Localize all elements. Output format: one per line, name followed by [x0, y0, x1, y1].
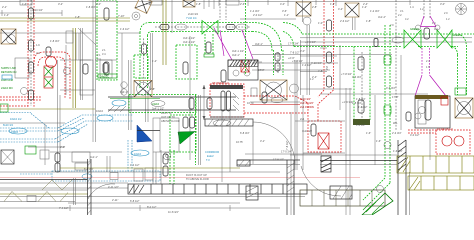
svg-text:24x10: 24x10: [152, 102, 160, 106]
svg-text:1 4: 1 4: [410, 5, 414, 9]
svg-text:1'-6": 1'-6": [22, 2, 27, 6]
svg-text:2'-8": 2'-8": [312, 5, 317, 9]
svg-text:7'-4 1/2": 7'-4 1/2": [59, 206, 69, 210]
svg-text:1'-6 1/2": 1'-6 1/2": [358, 105, 368, 109]
svg-text:2x4: 2x4: [325, 66, 329, 71]
svg-text:1'-8": 1'-8": [196, 2, 201, 6]
svg-text:3'-2": 3'-2": [58, 2, 63, 6]
svg-text:T.V.: T.V.: [206, 158, 211, 162]
svg-text:1'-6 1/2": 1'-6 1/2": [120, 27, 130, 31]
svg-text:3'-0 1/2": 3'-0 1/2": [356, 123, 366, 127]
svg-text:3'-0": 3'-0": [440, 2, 445, 6]
svg-text:1'-2": 1'-2": [152, 59, 157, 63]
svg-text:ELEV.: ELEV.: [207, 154, 214, 158]
svg-text:1'-4 1/2": 1'-4 1/2": [130, 163, 140, 167]
svg-text:2'-1": 2'-1": [2, 5, 7, 9]
svg-text:1'-4": 1'-4": [4, 13, 9, 17]
svg-text:3 4: 3 4: [97, 57, 101, 61]
svg-text:1'-8 3/4": 1'-8 3/4": [352, 101, 362, 105]
svg-text:2'-8": 2'-8": [150, 87, 155, 91]
svg-text:2x4: 2x4: [300, 117, 305, 121]
svg-text:7'x10 1/4: 7'x10 1/4: [186, 16, 197, 20]
svg-text:2'-6": 2'-6": [240, 2, 245, 6]
svg-text:24x10C: 24x10C: [100, 75, 109, 79]
svg-text:1'-2 3/4": 1'-2 3/4": [370, 9, 380, 13]
svg-text:4'-10 3/4": 4'-10 3/4": [311, 61, 322, 65]
svg-text:1 2: 1 2: [446, 17, 450, 21]
svg-text:1'-8": 1'-8": [366, 19, 371, 23]
svg-text:3x4'-1": 3x4'-1": [255, 42, 263, 46]
svg-text:2 4: 2 4: [426, 59, 430, 63]
svg-text:7'-10": 7'-10": [118, 14, 125, 18]
svg-text:4'-6 3/4": 4'-6 3/4": [352, 75, 362, 79]
svg-text:2'-0": 2'-0": [96, 2, 101, 6]
svg-text:1 2: 1 2: [420, 7, 424, 11]
svg-text:W/L: W/L: [393, 121, 398, 125]
svg-text:1-6: 1-6: [36, 43, 40, 47]
svg-text:48 CW/DN 1/2: 48 CW/DN 1/2: [212, 81, 229, 85]
svg-text:10x10: 10x10: [134, 152, 142, 156]
svg-text:3'-1": 3'-1": [260, 139, 265, 143]
svg-text:7'-8": 7'-8": [318, 69, 323, 73]
svg-text:2'-0": 2'-0": [60, 145, 65, 149]
svg-text:17'-8": 17'-8": [392, 95, 399, 99]
svg-text:2 2: 2 2: [398, 13, 402, 17]
svg-text:2x10 3/4: 2x10 3/4: [188, 12, 199, 16]
svg-text:1'-2": 1'-2": [330, 2, 335, 6]
svg-text:3x4'-1": 3x4'-1": [120, 90, 128, 94]
svg-text:7'-8 1/2": 7'-8 1/2": [290, 51, 300, 55]
svg-text:2'-11": 2'-11": [112, 198, 118, 202]
svg-text:1'-8 3/4": 1'-8 3/4": [50, 39, 60, 43]
svg-text:6'-8 3/4": 6'-8 3/4": [240, 131, 250, 135]
svg-text:2'-0 1/2": 2'-0 1/2": [253, 13, 263, 17]
svg-text:GREEN: GREEN: [410, 27, 419, 31]
svg-text:2'-3 3/4": 2'-3 3/4": [392, 131, 402, 135]
svg-text:17'-8": 17'-8": [258, 68, 265, 72]
svg-text:1'-8 3/4": 1'-8 3/4": [86, 5, 96, 9]
svg-text:DUCT IS: DUCT IS: [161, 111, 172, 115]
svg-text:3x4'-1": 3x4'-1": [232, 53, 240, 57]
svg-text:24x10 DN: 24x10 DN: [1, 86, 13, 90]
svg-text:3'-0": 3'-0": [300, 49, 305, 53]
svg-text:7'-8 1/2": 7'-8 1/2": [285, 140, 289, 150]
svg-text:8x10 3/4: 8x10 3/4: [3, 123, 14, 127]
svg-text:+2'-6": +2'-6": [288, 56, 295, 60]
svg-text:16.79: 16.79: [247, 101, 254, 105]
svg-text:CORRIDOR: CORRIDOR: [205, 150, 219, 154]
svg-text:3x10 3/4": 3x10 3/4": [300, 97, 311, 101]
svg-text:1 0: 1 0: [432, 21, 436, 25]
svg-text:SUPPLY AIR: SUPPLY AIR: [1, 66, 16, 70]
svg-text:16 3/4x16 1/2: 16 3/4x16 1/2: [437, 127, 453, 131]
svg-text:4'-6 3/4": 4'-6 3/4": [386, 86, 396, 90]
svg-text:2'-6 1/2": 2'-6 1/2": [340, 19, 350, 23]
svg-text:3x4'-1 1/2": 3x4'-1 1/2": [183, 40, 195, 44]
svg-text:3x4'-1 1/2": 3x4'-1 1/2": [232, 49, 244, 53]
svg-text:3'-6": 3'-6": [282, 9, 287, 13]
svg-text:DUCT IS OUT UP: DUCT IS OUT UP: [186, 173, 207, 177]
svg-text:RETURN ON: RETURN ON: [1, 70, 17, 74]
svg-text:16x10 1/2: 16x10 1/2: [10, 117, 22, 121]
svg-text:1'-4 3/4": 1'-4 3/4": [250, 9, 260, 13]
svg-text:17'-8 1/2": 17'-8 1/2": [273, 158, 284, 162]
svg-text:1 2: 1 2: [310, 77, 314, 81]
svg-text:1'-8 3/4": 1'-8 3/4": [356, 97, 366, 101]
svg-text:2 1: 2 1: [102, 48, 106, 52]
svg-text:1'-6": 1'-6": [376, 139, 381, 143]
svg-text:3x10 1/2: 3x10 1/2: [302, 129, 313, 133]
svg-text:11'-8 3/4": 11'-8 3/4": [168, 210, 179, 214]
svg-text:2x1': 2x1': [36, 51, 41, 55]
svg-text:3x4'-10 3/4": 3x4'-10 3/4": [300, 101, 314, 105]
svg-text:4 2: 4 2: [405, 17, 409, 21]
svg-text:1'-1": 1'-1": [284, 13, 289, 17]
svg-text:+7'-8 3/4": +7'-8 3/4": [341, 72, 352, 76]
svg-text:2 0: 2 0: [444, 11, 448, 15]
svg-text:1'-8": 1'-8": [75, 15, 80, 19]
svg-text:3 1: 3 1: [400, 9, 404, 13]
svg-text:OUT UP TO: OUT UP TO: [161, 115, 175, 119]
svg-text:3x1'-4": 3x1'-4": [378, 15, 386, 19]
svg-text:2 0: 2 0: [390, 23, 394, 27]
svg-text:4x1'-1": 4x1'-1": [90, 155, 98, 159]
svg-text:GREEN: GREEN: [452, 33, 461, 37]
svg-text:16.75': 16.75': [236, 140, 243, 144]
svg-text:10x8 CFM: 10x8 CFM: [1, 78, 13, 82]
svg-text:3x4'-1 1/2": 3x4'-1 1/2": [152, 107, 164, 111]
svg-text:24x10: 24x10: [11, 130, 19, 134]
svg-text:1'-2 1/2": 1'-2 1/2": [302, 63, 312, 67]
svg-text:8'-0 1/2": 8'-0 1/2": [147, 205, 157, 209]
svg-text:1'-0": 1'-0": [318, 21, 323, 25]
svg-text:4'-2": 4'-2": [338, 7, 343, 11]
svg-text:1'-6": 1'-6": [366, 131, 371, 135]
svg-text:3x4'-1 1/2": 3x4'-1 1/2": [183, 36, 195, 40]
svg-text:2x4 CW/DN: 2x4 CW/DN: [300, 105, 314, 109]
svg-text:2'-4": 2'-4": [363, 2, 368, 6]
svg-text:6'-8 1/2": 6'-8 1/2": [130, 199, 140, 203]
svg-text:2 1: 2 1: [97, 53, 101, 57]
svg-text:1'-6 3/4": 1'-6 3/4": [393, 149, 403, 153]
svg-text:1 6: 1 6: [426, 65, 430, 69]
svg-text:3 4: 3 4: [434, 27, 438, 31]
svg-text:4'-11 1/2": 4'-11 1/2": [108, 185, 119, 189]
svg-text:16x10: 16x10: [96, 109, 104, 113]
svg-text:4'-0 1/2": 4'-0 1/2": [410, 133, 420, 137]
svg-text:3 4: 3 4: [102, 52, 106, 56]
svg-text:6'-6 3/4": 6'-6 3/4": [84, 167, 94, 171]
svg-text:3'-1": 3'-1": [146, 2, 151, 6]
svg-text:4'-0": 4'-0": [280, 2, 285, 6]
